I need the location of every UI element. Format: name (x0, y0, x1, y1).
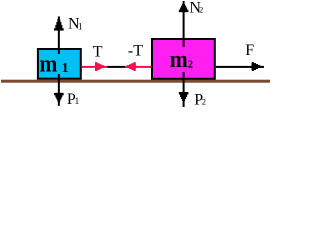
svg-text:2: 2 (188, 59, 193, 70)
ground surface (1, 80, 270, 83)
svg-text:F: F (245, 42, 254, 59)
arrowhead P2 (179, 92, 189, 101)
svg-text:-T: -T (128, 42, 143, 59)
svg-text:m: m (170, 46, 188, 73)
svg-text:2: 2 (202, 96, 206, 106)
svg-text:T: T (93, 44, 103, 61)
wire P1 line segment (below block m1 through ground) (58, 74, 60, 106)
arrowhead -T (127, 62, 136, 71)
wire N1 line segment (above and into block m1) (58, 16, 60, 54)
arrowhead P1 (54, 93, 64, 102)
wire T force line (red, from m1 right edge) (82, 66, 108, 68)
arrowhead N1 (54, 19, 64, 30)
arrowhead N2 (179, 4, 189, 12)
wire F force line (black, from m2 right edge) (216, 66, 264, 68)
wire -T force line (red, into m2 left edge) (125, 66, 151, 68)
svg-text:m: m (40, 50, 58, 77)
wire rope segment (black, between T and -T) (107, 66, 125, 68)
wire N2 line segment (above and into block m2) (183, 1, 185, 47)
wire P2 line segment (below block m2 through ground) (183, 72, 185, 107)
arrowhead F (252, 62, 261, 71)
arrowhead T (95, 62, 104, 71)
svg-text:1: 1 (78, 22, 83, 32)
svg-text:1: 1 (62, 61, 69, 76)
svg-text:2: 2 (199, 5, 203, 15)
block m2 (magenta) (152, 39, 215, 79)
block m1 (cyan) (38, 49, 81, 79)
svg-text:1: 1 (75, 97, 80, 107)
